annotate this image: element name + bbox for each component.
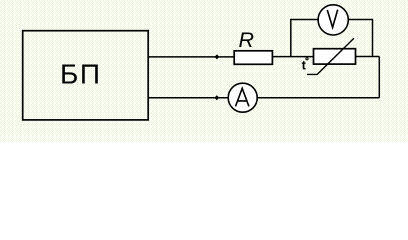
wire: right edge vertical — [378, 57, 380, 98]
ammeter U2 circle — [228, 83, 257, 112]
ammeter A glyph — [236, 88, 249, 106]
label t° — [302, 58, 309, 73]
wire: bottom from right edge to ammeter — [257, 97, 379, 99]
thermistor RK1 body — [314, 49, 356, 64]
junction dot bottom — [214, 95, 219, 100]
wire: voltmeter branch right riser — [348, 20, 372, 57]
thermistor diagonal stroke — [307, 38, 354, 74]
label БП — [60, 58, 102, 89]
wire: voltmeter branch left riser — [291, 20, 318, 57]
wire: thermistor to right edge — [356, 56, 379, 58]
voltmeter V glyph — [327, 10, 337, 28]
resistor R1 body — [234, 51, 272, 65]
voltmeter U1 circle — [318, 5, 348, 35]
power supply box БП — [23, 31, 149, 120]
junction dot top — [214, 54, 219, 59]
svg-text:R: R — [239, 28, 255, 52]
wire: top from БП to resistor — [148, 56, 233, 58]
wire: ammeter to БП bottom — [148, 97, 228, 99]
svg-text:БП: БП — [60, 58, 102, 89]
label R — [239, 28, 255, 52]
wire: resistor to thermistor — [273, 56, 313, 58]
